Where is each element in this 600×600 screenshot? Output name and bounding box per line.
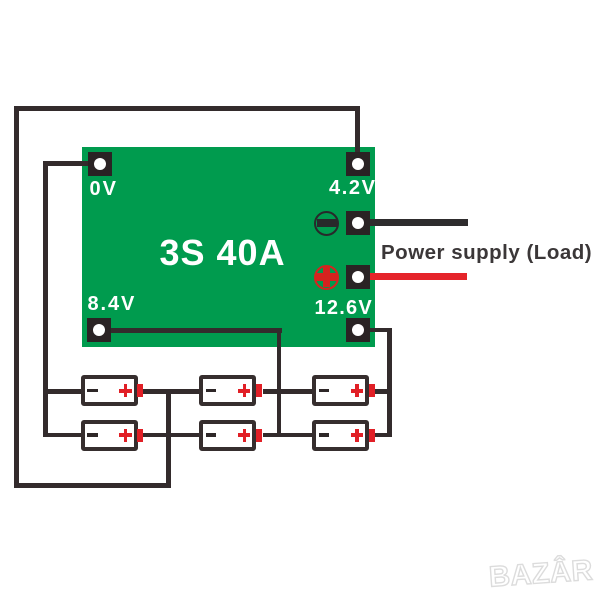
pad P4 12.6V <box>346 318 370 342</box>
wire row2 B3-right <box>375 433 393 438</box>
wire row1 left stub <box>43 389 81 394</box>
battery cell B2 (row1 col2) <box>199 375 256 406</box>
battery cell B4 (row2 col1) <box>81 420 138 451</box>
wire top loop horizontal (4.2V to outer left) <box>14 106 360 111</box>
BMS board 3S 40A <box>82 147 375 347</box>
wire middle vertical (group1/group2 junction) <box>166 389 171 488</box>
wire row1 B3-right <box>375 389 393 394</box>
wire row1 B1-B2 <box>143 389 199 394</box>
pad P- <box>346 211 370 235</box>
label Power supply (Load) <box>381 243 592 264</box>
label 8.4V <box>88 294 137 314</box>
wire 12.6V vertical <box>387 328 392 438</box>
label 0V <box>90 179 118 199</box>
wire row2 B1-B2 <box>143 433 199 438</box>
power supply red wire <box>370 273 467 280</box>
pad P+ <box>346 265 370 289</box>
board label 3S 40A <box>160 235 286 271</box>
pad P3 8.4V <box>87 318 111 342</box>
watermark logo BAZAR <box>488 556 594 592</box>
wire 8.4V vertical <box>277 328 282 437</box>
wire row2 B2-B3 <box>263 433 312 438</box>
pad P1 0V <box>88 152 112 176</box>
battery cell B3 (row1 col3) <box>312 375 369 406</box>
wire row1 B2-B3 <box>263 389 312 394</box>
wire row2 left stub <box>43 433 81 438</box>
battery cell B6 (row2 col3) <box>312 420 369 451</box>
wire 4.2V pad drop vertical <box>355 106 360 152</box>
label 4.2V <box>329 178 377 198</box>
wire 12.6V horizontal <box>370 328 392 333</box>
wire bottom horizontal <box>14 483 171 488</box>
label 12.6V <box>315 298 374 318</box>
wire 8.4V horizontal <box>111 328 282 333</box>
pad P2 4.2V <box>346 152 370 176</box>
screw terminal P- (minus) <box>314 211 339 236</box>
battery cell B5 (row2 col2) <box>199 420 256 451</box>
battery cell B1 (row1 col1) <box>81 375 138 406</box>
screw terminal P+ (plus) <box>314 265 339 290</box>
wire 0V horizontal <box>43 161 88 166</box>
wire outer left vertical <box>14 106 19 488</box>
wire 0V vertical <box>43 161 48 437</box>
power supply black wire <box>370 219 468 226</box>
